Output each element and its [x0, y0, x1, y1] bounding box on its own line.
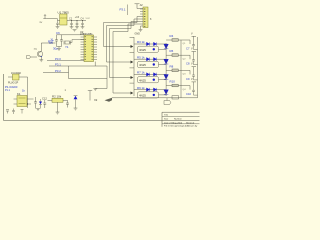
sheet border left: [3, 74, 5, 121]
svg-text:R8: R8: [170, 64, 174, 68]
capacitor C3 electrolytic: [76, 21, 79, 27]
svg-text:C12: C12: [42, 97, 47, 101]
svg-text:VCC: VCC: [86, 18, 91, 20]
power flag VCC2: [88, 91, 92, 101]
svg-text:P1.1: P1.1: [5, 89, 11, 92]
optocoupler U5: [138, 77, 159, 83]
svg-text:Y1: Y1: [65, 45, 69, 49]
svg-text:C9: C9: [186, 77, 190, 81]
wire ch4 right rail: [165, 89, 167, 96]
IC U2 MCU: [84, 35, 94, 62]
capacitor C12: [43, 100, 46, 108]
svg-text:J3 CON2: J3 CON2: [11, 72, 22, 75]
svg-text:C10: C10: [186, 92, 191, 96]
wire ch2 right rail: [165, 58, 167, 73]
wire ch1 out: [159, 48, 167, 50]
svg-text:P3.0: P3.0: [55, 57, 61, 61]
rail left channels: [130, 37, 135, 96]
optocoupler U6: [138, 92, 159, 98]
wire Q1 collector: [41, 43, 55, 51]
svg-text:AT89C2051: AT89C2051: [80, 33, 93, 36]
resistor R8: [172, 69, 178, 72]
LED D9: [154, 73, 157, 76]
wire ch1 upper: [166, 39, 181, 41]
ground C2: [70, 27, 74, 29]
VCC flag ch3: [192, 67, 197, 71]
ground big under U1: [73, 30, 77, 32]
U2 right pins: [94, 37, 98, 60]
svg-text:C6: C6: [56, 31, 60, 35]
ground K1 area: [36, 109, 40, 111]
wire bottom common: [112, 97, 198, 99]
capacitor C8: [192, 55, 197, 64]
title block left: [161, 112, 163, 127]
svg-text:4N25: 4N25: [139, 94, 146, 98]
wire J3 right: [19, 77, 28, 108]
arrow bottom left: [105, 98, 113, 102]
diode D15: [74, 96, 78, 99]
wire ch4 top: [134, 89, 166, 91]
Q1 arrow: [41, 56, 42, 57]
wire gnd branch: [95, 88, 107, 90]
wire mcu pin drop: [94, 62, 96, 67]
port bottom right: [164, 98, 171, 105]
resistor R2: [52, 98, 63, 102]
capacitor C2: [70, 21, 73, 27]
wire J1 to U1: [47, 19, 60, 21]
wire loop left: [68, 66, 70, 79]
ground Y1: [57, 49, 61, 51]
svg-text:File D:\Design\relay4.ddb: File D:\Design\relay4.ddb: [164, 125, 189, 127]
optocoupler U3: [138, 46, 159, 52]
svg-text:Sheet of: Sheet of: [186, 121, 195, 124]
svg-text:R3 1k: R3 1k: [137, 40, 145, 44]
svg-text:R7 1k: R7 1k: [137, 71, 145, 75]
ground D15: [74, 108, 78, 110]
component small box bottom: [172, 96, 179, 99]
diode D4: [164, 44, 168, 49]
wire U1 output: [67, 20, 86, 22]
wire loop bottom: [69, 78, 108, 80]
wire bus J2 pin7: [110, 22, 144, 78]
indicator U3: [153, 48, 155, 50]
svg-text:U1 7805: U1 7805: [58, 11, 70, 15]
connector J1 power input: [43, 15, 46, 19]
indicator U6: [153, 94, 155, 96]
arrow ch1 input: [131, 45, 134, 48]
wire ch2 top: [134, 58, 166, 60]
capacitor C1: [56, 21, 59, 27]
ground J2: [139, 30, 143, 32]
wire J3 left: [8, 76, 13, 78]
port RST: [27, 56, 31, 59]
svg-text:RST: RST: [48, 39, 54, 43]
ground R2: [56, 112, 60, 114]
LED D8: [147, 73, 150, 76]
wire Q1 emitter ground: [40, 57, 42, 60]
arrow ch3 input: [131, 76, 134, 79]
VCC flag ch4: [192, 82, 197, 86]
J2 pin stubs: [140, 9, 143, 14]
relay K1: [17, 96, 27, 107]
wire net C: [43, 72, 69, 74]
svg-text:C7: C7: [186, 47, 190, 51]
svg-text:Drawn by: Drawn by: [188, 125, 198, 127]
wire ch3 right rail: [165, 73, 167, 88]
svg-text:Date 27-May-2004: Date 27-May-2004: [164, 121, 183, 124]
indicator U4: [153, 63, 155, 65]
wire ch3 out: [159, 79, 167, 81]
ground C4: [81, 27, 85, 29]
wire net B: [49, 65, 107, 67]
wire J2 bottom pin: [141, 26, 144, 30]
svg-text:X2: X2: [94, 98, 98, 102]
wire ch4 к4: [181, 86, 190, 98]
VCC flag ch1: [192, 36, 197, 40]
svg-text:R4: R4: [170, 34, 174, 38]
regulator U1 7805: [60, 14, 67, 25]
title block line3: [162, 123, 200, 125]
small part bottom c: [21, 110, 24, 114]
LED D2: [147, 42, 150, 45]
wire ch1 к1: [181, 40, 190, 55]
small part bottom b: [12, 109, 15, 115]
svg-text:+C3: +C3: [75, 16, 80, 19]
LED D6: [154, 58, 157, 61]
junction dots on VCC wire: [71, 20, 83, 21]
wire bus J2 pin5: [104, 17, 144, 47]
LED D11: [147, 88, 150, 91]
ground C3: [75, 27, 79, 29]
capacitor C5 load: [55, 35, 58, 47]
transistor Q1: [37, 51, 43, 57]
svg-text:GND: GND: [135, 33, 141, 36]
svg-text:R2 10k: R2 10k: [52, 95, 62, 99]
capacitor C9: [192, 70, 197, 80]
LED D12: [154, 88, 157, 91]
wire ch3 upper: [166, 69, 181, 71]
LED D5: [147, 58, 150, 61]
capacitor C11: [34, 97, 37, 109]
svg-text:Number: Number: [174, 118, 182, 121]
optocoupler U4: [138, 61, 159, 67]
wire net A: [47, 60, 84, 62]
resistor R10: [172, 84, 178, 87]
ground C1: [56, 27, 60, 29]
net label line top: [127, 5, 129, 16]
U2 left pins: [81, 37, 85, 60]
wire xtal top: [57, 34, 85, 36]
wire ch3 к3: [181, 70, 190, 85]
resistor R6: [172, 54, 178, 57]
arrow ch4 input: [131, 92, 134, 95]
capacitor C10: [192, 86, 197, 96]
wire ch2 out: [159, 64, 167, 66]
wire ch1 top: [134, 43, 166, 45]
svg-text:4N25: 4N25: [139, 63, 146, 67]
svg-text:30p: 30p: [53, 47, 58, 51]
crystal Y1: [64, 40, 84, 45]
connector J2 header: [143, 7, 148, 28]
wire ch1 right rail: [165, 43, 167, 58]
svg-text:P3.2: P3.2: [55, 69, 61, 73]
wire ch3 top: [134, 73, 166, 75]
VCC flag J2: [135, 4, 144, 9]
LED D3: [154, 42, 157, 45]
title block line2: [162, 116, 200, 118]
ground loop: [93, 89, 97, 91]
wire bus J2 pin6: [107, 19, 144, 62]
wire ch2 upper: [166, 54, 181, 56]
indicator U5: [153, 79, 155, 81]
capacitor C4: [81, 21, 84, 27]
wire xtal bottom: [57, 47, 62, 49]
wire K1 pins: [14, 99, 34, 104]
wire loop right: [106, 66, 108, 89]
svg-text:C8: C8: [186, 62, 190, 66]
capacitor C13: [66, 100, 69, 107]
diode D10: [164, 75, 168, 80]
arrow ch2 input: [131, 61, 134, 64]
svg-text:R5 1k: R5 1k: [137, 55, 145, 59]
diode D7: [164, 59, 168, 64]
resistor R4: [172, 39, 178, 42]
title block top: [162, 111, 200, 113]
capacitor C7: [192, 40, 197, 50]
svg-text:R10: R10: [170, 80, 176, 84]
junction dot K1: [27, 103, 28, 104]
diode D14: [39, 102, 42, 105]
svg-text:P3.1: P3.1: [55, 63, 61, 67]
svg-text:P3.1: P3.1: [120, 8, 126, 12]
wire bus J2 pin8: [113, 24, 143, 93]
sheet border bottom: [4, 119, 200, 121]
ground Q1: [39, 60, 43, 62]
svg-text:R6: R6: [170, 49, 174, 53]
svg-text:4N25: 4N25: [139, 78, 146, 82]
wire RST: [31, 56, 38, 58]
svg-text:J2: J2: [140, 3, 143, 7]
connector J3: [13, 74, 20, 80]
small part bottom a: [6, 110, 9, 114]
U2 pin numbers: [85, 36, 93, 59]
wire ch4 out: [159, 94, 167, 96]
diode D13: [164, 90, 168, 95]
svg-text:PLUG-2P: PLUG-2P: [8, 82, 19, 85]
wire ch2 к2: [181, 55, 190, 70]
wire R2: [48, 100, 68, 112]
svg-text:R9 1k: R9 1k: [137, 86, 145, 90]
bus right: [197, 37, 199, 98]
capacitor C6 load: [60, 35, 63, 47]
wire ch4 upper: [166, 85, 181, 87]
svg-text:K1: K1: [17, 92, 21, 96]
sheet background: [0, 0, 200, 127]
VCC flag ch2: [192, 52, 197, 56]
svg-text:4N25: 4N25: [139, 48, 146, 52]
